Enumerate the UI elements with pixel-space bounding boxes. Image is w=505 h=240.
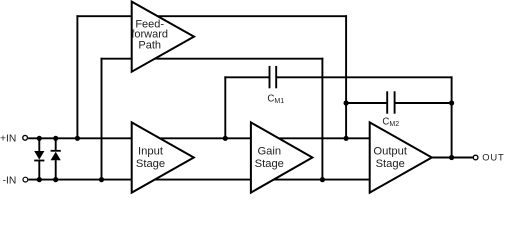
svg-text:Stage: Stage [376,158,405,170]
node D2 cathode / +IN rail [53,136,58,141]
wire vertical from -IN rail up to feed-forward [101,58,103,180]
svg-text:+IN: +IN [0,133,16,144]
wire CM1 right segment [276,76,452,78]
op-amp feed-forward path U1 [131,2,194,72]
diode D1 (left clamp diode) [34,138,44,179]
node D1 cathode / -IN rail [37,177,42,182]
op-amp input stage U2 [132,122,194,192]
node OUT / compensation return [449,155,454,160]
terminal OUT [473,155,478,160]
node D1 anode / +IN rail [37,136,42,141]
node D2 anode / -IN rail [53,177,58,182]
svg-text:-IN: -IN [3,175,17,186]
wire output stage apex to OUT terminal [432,157,473,159]
svg-text:Input: Input [138,145,164,157]
wire CM2 right segment [395,102,452,104]
wire +IN rail [28,137,371,139]
wire vertical from +IN rail up to feed-forward [76,15,78,138]
wire feed-forward top branch horizontal [76,15,347,17]
diode D2 (right clamp diode) [51,138,61,179]
node CM2 right plate / CM1 vertical [449,100,454,105]
terminal -IN [23,177,28,182]
wire CM2 left segment [346,102,387,104]
svg-text:Stage: Stage [255,158,284,170]
op-amp gain stage U3 [251,122,313,192]
terminal +IN [23,135,28,140]
wire CM1 left segment [224,76,269,78]
svg-text:OUT: OUT [482,152,504,163]
svg-text:Output: Output [373,145,407,157]
capacitor CM2 plates [387,91,394,113]
node feed-forward bottom output / output stage input [320,177,325,182]
svg-text:Stage: Stage [136,158,165,170]
capacitor CM1 plates [270,66,277,88]
op-amp output stage U4 [370,122,432,192]
wire vertical CM1 left down to input stage output node [224,76,226,138]
node feed-forward tap / -IN rail [99,177,104,182]
wire vertical feed-forward bottom output down to output stage input node [321,58,323,180]
wire -IN rail [28,179,371,181]
node feed-forward tap / +IN rail [75,136,80,141]
node CM2 left plate / feed-forward vertical [344,100,349,105]
wire vertical CM1/CM2 right down to OUT node [451,76,453,157]
node feed-forward top output / output stage input [344,136,349,141]
node CM1 tap / input stage output [223,136,228,141]
wire feed-forward bottom branch horizontal [101,58,324,60]
svg-text:Path: Path [138,40,161,52]
svg-text:Gain: Gain [257,145,281,157]
wire vertical feed-forward top output down to output stage input node [345,15,347,138]
